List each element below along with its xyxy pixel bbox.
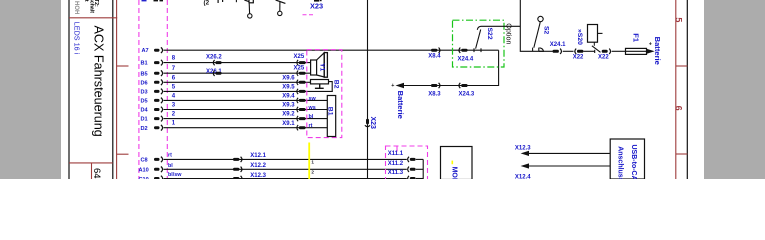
svg-text:5: 5 [674,17,684,22]
B5 pin [141,70,163,77]
svg-text:»S20: »S20 [576,29,583,45]
svg-text:bl: bl [309,114,314,120]
connector X11.1 [408,157,416,162]
X9.4 plug on D5 [297,98,298,103]
svg-text:MODUL: MODUL [450,167,457,179]
svg-text:X9.2: X9.2 [282,112,295,118]
wire Batterie return [404,50,499,85]
wire C8 [164,158,407,160]
D6 pin [141,80,163,87]
svg-text:X12.4: X12.4 [515,174,531,179]
svg-text:sw: sw [309,96,317,102]
svg-text:X24.4: X24.4 [458,56,474,62]
svg-text:2: 2 [311,169,314,174]
svg-text:X9.1: X9.1 [282,121,295,127]
net arrow X12.3 [521,151,529,156]
bus stub X11.2 [416,168,423,170]
connector X12.3 [233,176,242,181]
X25 plug on B1 [297,60,298,65]
module box [441,147,473,180]
connector X8.4 pair [431,48,440,53]
wire S2 drop from top [520,0,544,51]
A10 pin [139,167,163,174]
svg-text:D3: D3 [141,90,148,96]
svg-text:X23: X23 [310,1,323,10]
dashed fragment above X23 label [303,14,315,16]
connector X24.1 pair [553,49,562,54]
D5 pin [141,98,163,105]
svg-text:B5: B5 [141,71,148,77]
title block bottom divider (red) [69,162,113,164]
switch fragment 1 (cut at top) [236,0,253,18]
svg-text:HOH: HOH [73,1,79,14]
cable marker fragment in module box [451,161,453,165]
svg-text:X12.2: X12.2 [250,163,266,169]
horn Y1 [311,53,328,78]
svg-text:rt: rt [309,123,313,129]
right frame row tick 1 [676,65,688,67]
svg-text:D2: D2 [141,126,148,132]
page white [61,0,704,179]
svg-text:+: + [649,42,652,48]
switch S2 [533,16,544,51]
wire D3 [164,90,333,92]
buzzer B2 [311,80,329,89]
wire A7 [164,49,499,51]
svg-text:LEDS 16 i: LEDS 16 i [72,22,81,55]
wire [583,50,594,52]
wire right chain [539,50,553,52]
svg-text:B2: B2 [332,80,339,89]
B1 pin [141,60,163,67]
svg-text:X8.4: X8.4 [428,54,441,60]
connector X22 pair b [602,49,611,54]
C8 pin [141,157,163,164]
svg-text:X22: X22 [598,54,609,60]
svg-text:A10: A10 [139,167,149,173]
switch S22 [474,26,481,52]
svg-text:X9.6: X9.6 [282,75,295,81]
svg-text:X23: X23 [369,117,376,130]
right frame row tick 2 [676,153,688,155]
svg-text:C10: C10 [139,177,149,179]
net arrow Batterie (left) [396,83,405,88]
wire D6 [164,81,311,83]
svg-text:X12.3: X12.3 [250,173,266,179]
title block bottom cell divider vertical red [91,163,93,179]
title block top divider (red) [69,17,117,19]
background grey [0,0,765,179]
svg-text:ws: ws [308,105,316,111]
right frame red line [675,0,677,179]
D2 pin [141,125,163,132]
D3 pin [141,89,163,96]
net arrow Batterie (right) [646,49,654,54]
X9.2 plug on D1 [297,116,298,121]
svg-text:Anschluss: Anschluss [616,146,623,179]
svg-text:X22: X22 [573,54,584,60]
wire to fuse [612,50,626,52]
wire X12.4 to USB box [528,165,610,167]
wire S22 top link [481,25,520,27]
connector X11.2 [408,167,416,172]
ECU dashed box edge 2 [166,0,168,179]
svg-text:C8: C8 [141,158,148,164]
svg-text:S2: S2 [543,26,550,35]
svg-text:T2:: T2: [93,0,99,7]
svg-text:X24.1: X24.1 [550,42,566,48]
svg-text:X9.3: X9.3 [282,103,295,109]
left frame row tick 1 [117,65,129,67]
wire X12.3 to USB box [528,152,610,154]
cable marker yellow [308,143,310,180]
svg-text:Batterie: Batterie [653,37,662,65]
X26.1 inline connector on B5 [213,71,221,76]
connector X8.3 pair [431,83,440,88]
right frame black border [686,0,688,179]
title block left border [68,0,70,179]
svg-text:X25: X25 [294,54,305,60]
svg-text:S22: S22 [486,28,493,40]
S2 bottom hook [540,48,544,52]
X9.3 plug on D4 [297,107,298,112]
svg-text:Y1: Y1 [319,63,326,72]
svg-text:X24.3: X24.3 [459,91,475,97]
top fragment connector above X23 [314,0,319,2]
svg-text:USB-to-CAN: USB-to-CAN [630,145,637,180]
svg-text:6: 6 [674,106,684,111]
X23 plug on vertical [365,119,370,127]
device B1 box [327,96,335,137]
svg-text:B1: B1 [141,61,148,67]
left frame row tick 2 [117,153,129,155]
connector X24.4 pair [459,48,468,53]
USB adapter box [610,139,644,179]
svg-text:X9.4: X9.4 [282,94,295,100]
wire D4 [164,109,328,111]
left frame red line [116,0,118,179]
svg-text:F1: F1 [631,33,640,42]
svg-text:bl: bl [168,163,173,169]
X9.5 plug on D3 [297,89,298,94]
svg-text:D6: D6 [141,80,148,86]
X11 box inner dash [396,146,398,152]
svg-text:ACX Fahrsteuerung: ACX Fahrsteuerung [91,26,105,137]
svg-text:X8.3: X8.3 [428,91,441,97]
wire [563,50,574,52]
svg-text:X12.1: X12.1 [250,153,266,159]
svg-text:649: 649 [91,168,102,179]
svg-text:X25: X25 [294,65,305,71]
X11 dashed connector box [386,146,428,182]
svg-text:X11.3: X11.3 [388,170,404,176]
connector X12.1 [233,157,242,162]
net arrow X12.4 [521,163,529,168]
wire A10 [164,168,407,170]
top fragment blue label [142,0,147,1]
relay contact S20 [592,46,601,53]
wire D5 [164,99,328,101]
svg-text:X11.2: X11.2 [388,161,404,167]
switch fragment 2 (cut at top) [276,0,286,16]
bus vertical [422,159,424,179]
wire B5 [164,72,311,74]
connector X22 pair a [575,49,584,54]
top fragment tick [218,0,219,3]
wire D2 [164,127,328,129]
A7 pin [142,47,163,54]
X9.1 plug on D2 [297,125,298,130]
svg-text:A7: A7 [142,48,149,54]
X25 plug on B5 [297,71,298,76]
fuse F1 [626,48,647,54]
wire D3 up-link to B2 [329,82,333,92]
ECU dashed box edge 1 [138,0,140,179]
X9.6 plug on D6 [297,80,298,85]
bus stub X11.3 [416,178,423,180]
horn module dashed box [307,50,342,138]
svg-text:X12.3: X12.3 [515,145,531,151]
C10 pin [139,176,163,183]
svg-text:D4: D4 [141,108,149,114]
title block right border [112,0,114,179]
svg-text:B1: B1 [327,107,334,116]
svg-text:bl/sw: bl/sw [168,172,182,178]
svg-text:rt: rt [168,153,172,159]
D1 pin [141,116,163,123]
PINS LEFT TOP GROUP [0,0,1,1]
connector X24.3 pair [459,83,468,88]
svg-text:X11.1: X11.1 [388,151,404,157]
X26.2 inline connector on B1 [213,60,221,65]
wire C10 [164,178,407,180]
svg-text:(2: (2 [204,0,210,6]
svg-text:X9.5: X9.5 [282,85,295,91]
wire B1 [164,62,311,64]
svg-text:1: 1 [311,159,314,164]
wire D1 [164,118,328,120]
connector X11.3 [408,176,416,181]
option green dash-dot box [453,20,505,67]
connector X12.2 [233,167,242,172]
svg-text:+: + [391,83,394,89]
svg-text:D1: D1 [141,117,148,123]
relay coil S20 [588,25,603,46]
top fragment pin marks [154,0,159,1]
D4 pin [141,107,163,114]
svg-text:Batterie: Batterie [396,91,405,119]
svg-text:D5: D5 [141,99,148,105]
net line X23 vertical [367,0,369,179]
svg-text:lt: lt [83,0,89,2]
bus stub X11.1 [416,158,423,160]
